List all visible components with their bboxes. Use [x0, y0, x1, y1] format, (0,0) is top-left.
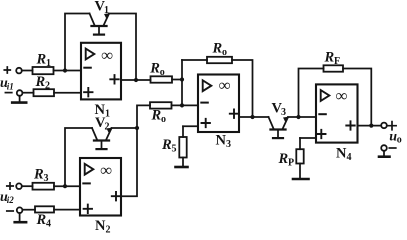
wire (RF right leg) — [343, 69, 371, 126]
output terminal - (uo) — [381, 145, 396, 151]
svg-text:o: o — [222, 47, 227, 58]
svg-text:R: R — [36, 212, 47, 228]
transistor V1 — [90, 14, 110, 35]
ground (under ui1) — [12, 96, 26, 103]
wire (N3 output) — [239, 116, 269, 118]
svg-text:P: P — [288, 158, 294, 169]
svg-text:o: o — [397, 135, 402, 146]
wire — [22, 185, 33, 187]
label N1 — [95, 102, 111, 120]
svg-text:i2: i2 — [7, 195, 15, 205]
transistor V3 — [269, 117, 289, 138]
svg-text:o: o — [161, 114, 166, 125]
wire — [22, 70, 33, 72]
wire (N1 output) — [121, 79, 151, 81]
svg-text:F: F — [334, 56, 340, 67]
svg-text:2: 2 — [45, 81, 50, 92]
label ui2 — [0, 190, 14, 205]
label N4 — [336, 146, 352, 164]
svg-text:5: 5 — [172, 144, 177, 155]
wire — [54, 70, 82, 72]
svg-text:R: R — [161, 137, 172, 153]
label N3 — [216, 133, 232, 151]
wire (N2 output) — [121, 105, 150, 196]
svg-text:∞: ∞ — [219, 76, 231, 95]
op-amp N2 — [80, 158, 121, 216]
svg-text:∞: ∞ — [101, 45, 113, 64]
ground (under ui2) — [15, 213, 26, 222]
svg-text:R: R — [151, 108, 162, 124]
node (N3 inverting input) — [180, 103, 184, 107]
wire — [54, 209, 80, 211]
svg-text:1: 1 — [105, 109, 110, 120]
wire — [22, 92, 33, 94]
svg-text:2: 2 — [105, 122, 110, 133]
wire (vertical to N3 inverting node) — [181, 60, 183, 105]
svg-text:4: 4 — [46, 219, 51, 230]
resistor R2 — [34, 74, 55, 96]
svg-text:R: R — [36, 52, 47, 68]
node (R3 / N2 inverting input) — [63, 184, 67, 188]
resistor R3 — [33, 167, 55, 190]
wire — [112, 127, 138, 129]
wire (N4 + input) — [300, 137, 316, 139]
wire — [172, 79, 182, 81]
wire — [65, 14, 90, 71]
input terminal + (ui2) — [7, 183, 22, 189]
svg-text:N: N — [336, 146, 347, 162]
wire — [54, 185, 80, 187]
svg-text:R: R — [35, 74, 46, 90]
svg-text:3: 3 — [281, 107, 286, 118]
svg-text:i1: i1 — [7, 81, 14, 91]
wire (N3 + input) — [183, 125, 198, 127]
svg-text:2: 2 — [106, 225, 111, 234]
input terminal + (ui1) — [4, 67, 22, 73]
wire — [22, 209, 35, 211]
svg-text:R: R — [149, 61, 160, 77]
ground (under R5) — [176, 166, 188, 169]
input terminal - (ui2) — [7, 207, 23, 213]
op-amp N4 — [316, 84, 358, 142]
wire — [172, 104, 199, 106]
node (N1 output / V1 emitter) — [134, 78, 138, 82]
node (V2 emitter junction) — [135, 126, 139, 130]
transistor V2 — [92, 128, 112, 149]
node (N3 output / feedback) — [250, 115, 254, 119]
wire (RF left leg) — [299, 69, 324, 118]
label V1 — [95, 0, 110, 16]
svg-text:1: 1 — [46, 58, 51, 69]
svg-text:o: o — [160, 67, 165, 78]
resistor Ro (from N2) — [150, 102, 172, 125]
svg-text:N: N — [95, 218, 106, 233]
wire (N4 output) — [358, 125, 382, 127]
resistor RP — [278, 138, 304, 178]
wire (feedback left leg) — [182, 59, 207, 61]
resistor R1 — [33, 52, 54, 75]
svg-text:4: 4 — [347, 152, 352, 163]
wire — [288, 116, 316, 118]
resistor R4 — [35, 206, 54, 229]
label N2 — [95, 218, 111, 236]
svg-text:∞: ∞ — [100, 161, 112, 180]
op-amp N1 — [81, 43, 121, 100]
ground (under uo) — [379, 151, 390, 157]
node (N4 inverting / RF) — [296, 115, 300, 119]
svg-text:3: 3 — [44, 173, 49, 184]
node (N4 output / RF) — [369, 124, 373, 128]
node (summing vertical top) — [180, 77, 184, 81]
wire — [109, 14, 136, 81]
label ui1 — [0, 76, 14, 91]
output terminal + (uo) — [381, 122, 396, 130]
label V3 — [272, 101, 287, 119]
resistor RF — [324, 50, 344, 72]
svg-text:∞: ∞ — [336, 86, 348, 105]
op-amp N3 — [198, 75, 239, 133]
node (R1 / N1 inverting input) — [63, 68, 67, 72]
label uo — [389, 129, 401, 145]
svg-text:N: N — [216, 133, 227, 149]
svg-text:R: R — [324, 50, 335, 66]
input terminal - (ui1) — [5, 90, 22, 96]
label V2 — [95, 115, 110, 133]
svg-text:R: R — [212, 41, 223, 57]
wire — [65, 128, 92, 186]
svg-text:R: R — [278, 151, 289, 167]
resistor Ro (feedback N3) — [207, 41, 232, 64]
resistor R5 — [161, 126, 187, 166]
svg-text:3: 3 — [226, 139, 231, 150]
wire (feedback right leg) — [232, 60, 253, 117]
ground (under RP) — [293, 178, 309, 181]
wire — [54, 92, 81, 94]
svg-text:R: R — [33, 167, 44, 183]
resistor Ro (from N1) — [149, 61, 172, 83]
